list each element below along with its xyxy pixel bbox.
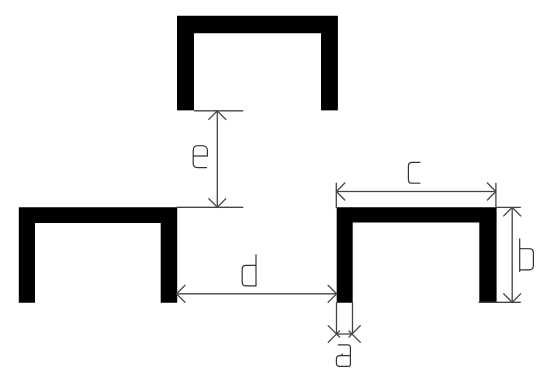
extension line right of dimension a [352,303,354,334]
label d [242,255,256,286]
label b [520,239,534,272]
arrowhead b bottom [504,294,521,303]
extension line top of dimension e [195,110,243,112]
arrowhead b top [504,207,521,216]
label c [408,162,420,183]
dimension line a [337,333,353,335]
arrowhead e bottom [209,199,226,208]
arrowhead e top [209,111,226,120]
dimension line e [216,111,218,207]
label a [336,345,350,367]
top channel profile [177,16,338,111]
extension line right of dimension c [495,183,497,207]
extension line left of dimension c [335,183,337,207]
dimension line d [177,293,337,295]
extension line bottom of dimension b [479,301,520,303]
right channel profile [337,207,497,302]
arrowhead c right [487,183,496,200]
extension line left of dimension a [336,303,338,334]
arrowhead d left [177,285,186,302]
label e [193,146,207,168]
dimension line c [336,191,496,193]
oblique arrow cross a right [349,326,360,343]
dimension line b [511,207,513,302]
left channel profile [19,207,177,303]
oblique arrow cross a left [328,326,339,343]
arrowhead c left [336,183,345,200]
extension line top of dimension b [496,206,520,208]
arrowhead d right [328,285,337,302]
extension line bottom of dimension e [177,206,243,208]
